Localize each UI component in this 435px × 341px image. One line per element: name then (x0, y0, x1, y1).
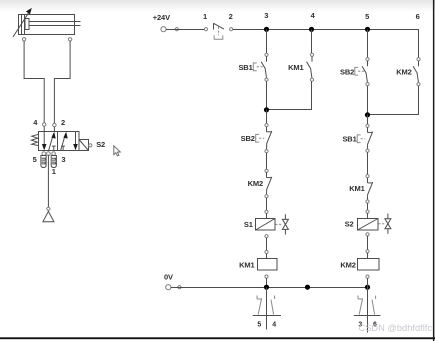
KM2 contact table stem (367, 288, 369, 333)
wire SB2 to KM2 contact (266, 153, 268, 169)
valve right box down arrow (73, 132, 78, 151)
svg-text:SB2: SB2 (340, 67, 354, 76)
contact SB1 NC bottom terminal (366, 149, 369, 152)
svg-text:SB1: SB1 (238, 63, 252, 72)
contact KM2 NC bottom terminal (265, 195, 268, 198)
muffler port 3 (51, 156, 56, 168)
svg-text:3: 3 (264, 11, 268, 20)
valve port 1 terminal (47, 152, 51, 156)
contact SB2b NO bottom terminal (366, 83, 369, 86)
contact KM2 NC (267, 172, 272, 194)
KM1 contact table stem (266, 288, 268, 330)
wire KM1 NC to S2 coil (367, 203, 369, 210)
contact SB1 NC top terminal (366, 124, 369, 127)
contact SB1 NO top terminal (265, 53, 268, 56)
valve left box blocked port 3 (52, 146, 56, 150)
svg-text:1: 1 (203, 12, 207, 21)
svg-text:KM2: KM2 (340, 261, 355, 270)
svg-text:1: 1 (52, 167, 56, 176)
contact KM1 NO top terminal (310, 53, 313, 56)
node column3 top (264, 27, 269, 32)
contact SB2 NC bottom terminal (265, 150, 268, 153)
cylinder A1 body (19, 15, 75, 35)
cylinder piston (25, 19, 29, 30)
svg-text:KM1: KM1 (288, 63, 303, 72)
coil S1 (256, 219, 276, 231)
wire junction to SB2 (266, 110, 268, 124)
coil KM2 stub (367, 253, 369, 259)
wire S1 to KM1 coil (266, 238, 268, 251)
wire column3 upper (266, 30, 268, 54)
main switch detent (214, 27, 223, 39)
main switch left terminal 1 (204, 28, 207, 31)
valve port 3 terminal (52, 152, 56, 156)
svg-text:5: 5 (33, 155, 37, 164)
coil S2 stub (367, 213, 369, 218)
coil S2 bottom terminal (366, 233, 369, 236)
valve solenoid S2 (79, 140, 89, 151)
muffler port 5 (41, 156, 46, 168)
contact KM1 NC bottom terminal (366, 200, 369, 203)
SB2 right actuator bracket (355, 67, 365, 75)
contact SB1 NO bottom terminal (265, 78, 268, 81)
KM2 contact table NC mini (358, 296, 363, 315)
node column4 top (309, 27, 314, 32)
air supply terminal (47, 207, 50, 210)
contact SB2 NC (267, 127, 272, 150)
supply terminal +24V (161, 27, 166, 32)
wire column4 upper (311, 30, 313, 54)
coil S1 bottom terminal (265, 235, 268, 238)
contact KM1 NO (307, 56, 312, 78)
S1 valve link symbol (275, 214, 288, 234)
wire valve port 1 to air supply (47, 155, 49, 208)
svg-text:SB1: SB1 (342, 134, 356, 143)
wire column5 upper (367, 30, 369, 58)
node column5 top (365, 27, 370, 32)
valve port 2 terminal (53, 123, 56, 126)
valve port 5 terminal (42, 152, 46, 156)
valve left box 4-5 down arrow (42, 132, 47, 151)
svg-text:CSDN @bdhfdflfc: CSDN @bdhfdflfc (359, 323, 433, 333)
cylinder piston rod (29, 22, 81, 26)
KM1 contact table NO mini (271, 296, 275, 315)
svg-text:2: 2 (229, 12, 233, 21)
coil S1 top terminal (265, 210, 268, 213)
wire S2 to KM2 coil (367, 236, 369, 250)
wire +24V rail right (233, 29, 419, 31)
wire cylinder left port to valve port 4 (24, 41, 44, 123)
valve right box blocked port (61, 146, 65, 150)
coil KM2 (358, 259, 380, 271)
contact SB2 NO right (362, 61, 367, 83)
coil KM1 bottom terminal (265, 275, 268, 278)
wire column5 to junction right (367, 86, 369, 115)
contact KM2b NO top terminal (417, 58, 420, 61)
wire column4 to junction (267, 81, 312, 109)
node 0V col5 (365, 285, 370, 290)
svg-text:3: 3 (61, 155, 65, 164)
valve V1 body (39, 132, 80, 151)
contact SB2b NO top terminal (366, 58, 369, 61)
supply terminal 0V (166, 285, 171, 290)
contact KM1 NC top terminal (366, 175, 369, 178)
wire column6 from rail (418, 30, 420, 58)
KM2 contact table baseline (354, 315, 381, 317)
wire SB1 NC to KM1 NC (367, 152, 369, 174)
terminal small circle (175, 28, 178, 31)
mouse cursor (114, 146, 121, 156)
node 0V col3 (264, 285, 269, 290)
svg-text:SB2: SB2 (241, 134, 255, 143)
cylinder port terminal left (22, 38, 25, 41)
main switch blade (214, 23, 225, 29)
coil KM1 stub (266, 254, 268, 259)
svg-text:4: 4 (272, 321, 276, 328)
KM2 contact table NO mini (372, 296, 376, 315)
terminal small circle 0V (178, 286, 181, 289)
svg-text:2: 2 (61, 118, 65, 127)
S2 valve link symbol (378, 214, 391, 234)
node junction col3 (264, 107, 269, 112)
valve return spring (31, 134, 38, 145)
wire 0V rail (171, 287, 368, 289)
wire KM2 contact to S1 coil (266, 198, 268, 210)
valve port 4 stub (43, 126, 45, 131)
svg-text:KM1: KM1 (239, 260, 254, 269)
KM1 contact table NC mini (257, 296, 262, 315)
valve port 4 terminal (43, 123, 46, 126)
cylinder port terminal right (68, 38, 71, 41)
svg-text:KM1: KM1 (349, 184, 364, 193)
coil KM2 top terminal (366, 250, 369, 253)
node 0V mid (305, 285, 310, 290)
solenoid pilot terminal (89, 144, 92, 147)
svg-text:6: 6 (416, 12, 420, 21)
wire +24V rail left (166, 29, 204, 31)
contact KM2 NO right (413, 61, 418, 83)
wire cylinder right port to valve port 2 (54, 41, 70, 123)
SB2 actuator bracket (256, 134, 265, 142)
contact SB2 NC top terminal (265, 124, 268, 127)
wire KM1 coil to 0V rail (266, 278, 268, 287)
svg-text:S1: S1 (244, 220, 253, 229)
contact KM2b NO bottom terminal (417, 83, 420, 86)
svg-text:S2: S2 (345, 220, 354, 229)
SB1 right actuator bracket (357, 135, 365, 143)
wire column3 to junction (266, 81, 268, 109)
coil S2 (358, 219, 379, 231)
cylinder adjustment arrow (13, 8, 32, 37)
contact KM1 NO bottom terminal (310, 78, 313, 81)
contact SB1 NO (261, 56, 266, 78)
SB1 actuator bracket (253, 63, 263, 71)
svg-text:+24V: +24V (153, 13, 170, 22)
valve port 2 stub (53, 127, 55, 131)
KM1 contact table baseline (253, 315, 281, 317)
contact KM2 NC top terminal (265, 169, 268, 172)
coil KM1 (258, 259, 278, 271)
svg-text:5: 5 (365, 12, 369, 21)
coil S2 top terminal (366, 210, 369, 213)
coil KM2 bottom terminal (366, 275, 369, 278)
contact KM1 NC (368, 178, 373, 200)
coil S1 stub (266, 213, 268, 218)
valve left box 1-2 arrow (49, 132, 56, 151)
wire column6 to junction right (368, 86, 419, 115)
node junction col5 (365, 112, 370, 117)
coil KM1 top terminal (265, 250, 268, 253)
wire KM2 coil to 0V rail (367, 278, 369, 287)
svg-text:S2: S2 (96, 140, 105, 149)
wire junction to SB1 NC (367, 115, 369, 125)
svg-text:KM2: KM2 (248, 179, 263, 188)
main switch right terminal 2 (230, 28, 233, 31)
valve right box diagonal arrow (61, 132, 68, 151)
svg-text:5: 5 (257, 321, 261, 328)
svg-text:0V: 0V (164, 273, 173, 282)
svg-text:KM2: KM2 (396, 67, 411, 76)
air supply source triangle (43, 211, 54, 221)
contact SB1 NC (368, 127, 373, 149)
